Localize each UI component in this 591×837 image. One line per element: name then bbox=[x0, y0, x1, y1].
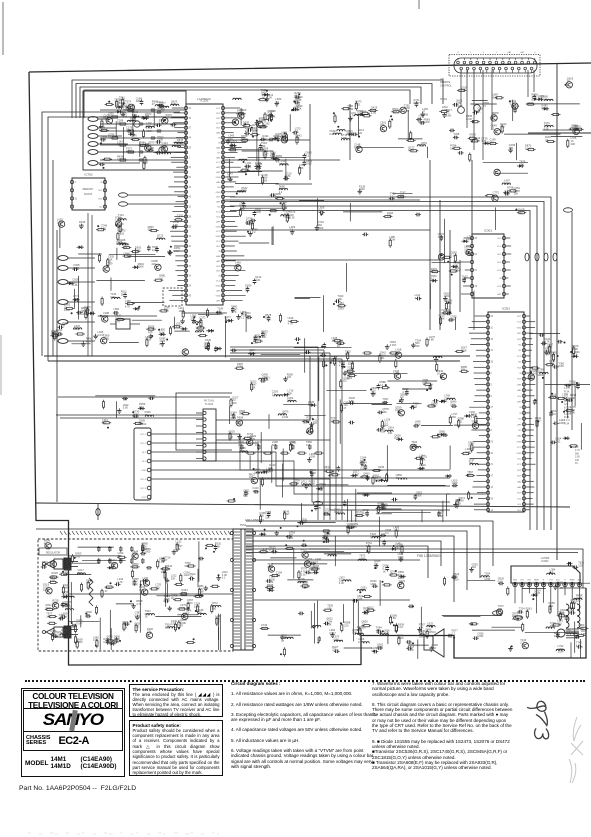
svg-text:33K: 33K bbox=[264, 378, 269, 382]
svg-text:33K: 33K bbox=[361, 588, 366, 592]
svg-text:100K: 100K bbox=[174, 249, 180, 253]
svg-text:100K: 100K bbox=[341, 136, 347, 140]
svg-text:0.047: 0.047 bbox=[51, 332, 58, 336]
svg-text:VCC: VCC bbox=[517, 464, 522, 466]
svg-text:0.01: 0.01 bbox=[239, 203, 245, 207]
svg-text:4.7K: 4.7K bbox=[86, 339, 92, 343]
svg-text:0.01: 0.01 bbox=[139, 588, 145, 592]
svg-text:100K: 100K bbox=[252, 489, 258, 493]
svg-text:1/2W: 1/2W bbox=[347, 107, 354, 111]
svg-text:0.1: 0.1 bbox=[140, 143, 144, 147]
svg-text:0.01: 0.01 bbox=[498, 579, 504, 583]
svg-text:560: 560 bbox=[102, 421, 107, 425]
svg-text:AFT: AFT bbox=[216, 260, 221, 263]
svg-text:100K: 100K bbox=[393, 528, 399, 532]
svg-text:0.1: 0.1 bbox=[306, 443, 310, 447]
svg-text:10K: 10K bbox=[550, 395, 555, 399]
svg-text:2.2: 2.2 bbox=[272, 392, 276, 396]
svg-text:100K: 100K bbox=[415, 422, 421, 426]
svg-text:100K: 100K bbox=[550, 624, 556, 628]
svg-text:220: 220 bbox=[472, 565, 477, 569]
svg-text:10K: 10K bbox=[421, 457, 426, 461]
svg-text:1000: 1000 bbox=[359, 187, 365, 191]
svg-text:33K: 33K bbox=[380, 123, 385, 127]
svg-text:NC: NC bbox=[518, 350, 522, 352]
svg-text:1000: 1000 bbox=[261, 626, 267, 630]
svg-text:220: 220 bbox=[155, 585, 160, 589]
svg-text:6.8K: 6.8K bbox=[301, 482, 307, 486]
svg-text:AFT: AFT bbox=[216, 289, 221, 292]
svg-text:3.3K: 3.3K bbox=[255, 278, 261, 282]
svg-text:120: 120 bbox=[557, 621, 562, 625]
svg-text:F88 1258/9582:: F88 1258/9582: bbox=[417, 554, 441, 558]
svg-text:33K: 33K bbox=[284, 215, 289, 219]
svg-text:560: 560 bbox=[121, 110, 126, 114]
svg-text:HEAT: HEAT bbox=[534, 579, 540, 582]
svg-text:560: 560 bbox=[164, 308, 169, 312]
svg-text:2.2: 2.2 bbox=[390, 194, 394, 198]
svg-text:0.1: 0.1 bbox=[500, 127, 504, 131]
svg-text:0.01: 0.01 bbox=[556, 439, 562, 443]
svg-text:1/2W: 1/2W bbox=[398, 636, 405, 640]
svg-text:1000: 1000 bbox=[187, 601, 193, 605]
svg-text:4.7K: 4.7K bbox=[404, 109, 410, 113]
svg-text:1K: 1K bbox=[437, 372, 440, 376]
svg-text:0.01: 0.01 bbox=[74, 327, 80, 331]
svg-text:1/2W: 1/2W bbox=[557, 586, 564, 590]
svg-text:33K: 33K bbox=[571, 142, 576, 146]
svg-text:2.2: 2.2 bbox=[513, 107, 517, 111]
svg-text:1K: 1K bbox=[121, 292, 124, 296]
svg-text:220: 220 bbox=[576, 598, 581, 602]
svg-text:1K: 1K bbox=[421, 144, 424, 148]
svg-text:6.8K: 6.8K bbox=[493, 95, 499, 99]
svg-text:560: 560 bbox=[431, 404, 436, 408]
svg-text:VCC: VCC bbox=[216, 241, 221, 243]
svg-text:33K: 33K bbox=[299, 166, 304, 170]
svg-text:4.7K: 4.7K bbox=[371, 111, 377, 115]
svg-text:0.047: 0.047 bbox=[262, 152, 269, 156]
svg-text:B-G: B-G bbox=[578, 580, 582, 582]
svg-text:OUT: OUT bbox=[517, 379, 522, 381]
svg-text:VCC: VCC bbox=[497, 246, 502, 248]
svg-text:120: 120 bbox=[249, 475, 254, 479]
svg-text:120: 120 bbox=[531, 375, 536, 379]
svg-text:0.047: 0.047 bbox=[324, 468, 331, 472]
svg-text:OUT: OUT bbox=[216, 266, 221, 268]
svg-text:2.2: 2.2 bbox=[319, 209, 323, 213]
svg-text:3.3K: 3.3K bbox=[339, 581, 345, 585]
svg-text:GND: GND bbox=[216, 226, 221, 228]
svg-text:33K: 33K bbox=[288, 391, 293, 395]
svg-text:33K: 33K bbox=[541, 106, 546, 110]
svg-text:33K: 33K bbox=[380, 356, 385, 360]
svg-text:220: 220 bbox=[253, 341, 258, 345]
svg-text:0.1: 0.1 bbox=[295, 129, 299, 133]
svg-text:S24C04: S24C04 bbox=[84, 194, 93, 196]
svg-text:1000: 1000 bbox=[145, 550, 151, 554]
svg-text:0.047: 0.047 bbox=[162, 144, 169, 148]
svg-text:220: 220 bbox=[147, 630, 152, 634]
svg-text:6.8K: 6.8K bbox=[429, 338, 435, 342]
svg-text:IC301: IC301 bbox=[484, 229, 492, 233]
svg-text:2.2: 2.2 bbox=[289, 228, 293, 232]
svg-text:120: 120 bbox=[327, 607, 332, 611]
svg-text:3.3K: 3.3K bbox=[262, 137, 268, 141]
svg-text:100K: 100K bbox=[416, 494, 422, 498]
svg-text:IC702: IC702 bbox=[84, 173, 92, 177]
svg-text:3.3K: 3.3K bbox=[570, 411, 576, 415]
svg-text:220: 220 bbox=[413, 404, 418, 408]
svg-text:4.7K: 4.7K bbox=[61, 631, 67, 635]
svg-text:6.8K: 6.8K bbox=[357, 597, 363, 601]
svg-text:10K: 10K bbox=[507, 188, 512, 192]
svg-text:0.1: 0.1 bbox=[384, 423, 388, 427]
svg-text:6.8K: 6.8K bbox=[101, 226, 107, 230]
svg-text:120: 120 bbox=[400, 193, 405, 197]
svg-text:0.01: 0.01 bbox=[301, 572, 307, 576]
svg-text:0.1: 0.1 bbox=[276, 100, 280, 104]
svg-text:220: 220 bbox=[317, 506, 322, 510]
svg-text:0.01: 0.01 bbox=[371, 391, 377, 395]
svg-text:2.2: 2.2 bbox=[238, 443, 242, 447]
svg-text:OUT: OUT bbox=[98, 198, 103, 200]
svg-text:1/2W: 1/2W bbox=[184, 573, 191, 577]
svg-text:2.2: 2.2 bbox=[245, 287, 249, 291]
svg-text:6.8K: 6.8K bbox=[250, 385, 256, 389]
svg-text:33K: 33K bbox=[259, 120, 264, 124]
svg-text:AFT: AFT bbox=[216, 220, 221, 223]
svg-text:1/2W: 1/2W bbox=[298, 580, 305, 584]
svg-text:AFT: AFT bbox=[517, 423, 522, 426]
svg-text:3.3K: 3.3K bbox=[289, 216, 295, 220]
svg-text:NC: NC bbox=[518, 345, 522, 347]
svg-text:220: 220 bbox=[395, 545, 400, 549]
svg-text:1K: 1K bbox=[567, 79, 570, 83]
svg-text:100K: 100K bbox=[45, 606, 51, 610]
svg-text:1000: 1000 bbox=[177, 141, 183, 145]
svg-text:6.8K: 6.8K bbox=[392, 110, 398, 114]
svg-text:1000: 1000 bbox=[578, 626, 584, 630]
svg-text:3.3K: 3.3K bbox=[205, 344, 211, 348]
svg-text:6.8K: 6.8K bbox=[357, 628, 363, 632]
svg-text:10K: 10K bbox=[46, 615, 51, 619]
svg-text:0.01: 0.01 bbox=[450, 403, 456, 407]
svg-text:0.047: 0.047 bbox=[353, 472, 360, 476]
svg-text:560: 560 bbox=[139, 421, 144, 425]
svg-text:NC: NC bbox=[518, 362, 522, 364]
svg-text:4.7K: 4.7K bbox=[549, 362, 555, 366]
svg-text:560: 560 bbox=[243, 494, 248, 498]
svg-text:PA TUNL: PA TUNL bbox=[204, 399, 215, 403]
svg-text:120: 120 bbox=[120, 231, 125, 235]
svg-text:560: 560 bbox=[103, 116, 108, 120]
svg-text:10K: 10K bbox=[227, 177, 232, 181]
svg-text:0.1: 0.1 bbox=[374, 562, 378, 566]
svg-text:33K: 33K bbox=[373, 476, 378, 480]
svg-text:AFT: AFT bbox=[216, 201, 221, 204]
svg-text:AFT: AFT bbox=[216, 171, 221, 174]
svg-text:120: 120 bbox=[111, 564, 116, 568]
svg-text:OUT: OUT bbox=[517, 316, 522, 318]
svg-text:AFT: AFT bbox=[216, 299, 221, 302]
svg-text:1000: 1000 bbox=[131, 136, 137, 140]
svg-text:10K: 10K bbox=[354, 145, 359, 149]
svg-text:220: 220 bbox=[332, 648, 337, 652]
svg-text:AFT: AFT bbox=[517, 332, 522, 335]
svg-text:10K: 10K bbox=[450, 147, 455, 151]
svg-text:OUT-1: OUT-1 bbox=[140, 434, 147, 436]
svg-text:3.3K: 3.3K bbox=[93, 638, 99, 642]
svg-text:4.7K: 4.7K bbox=[294, 108, 300, 112]
svg-text:0.01: 0.01 bbox=[348, 362, 354, 366]
svg-text:1K: 1K bbox=[549, 607, 552, 611]
svg-text:NC: NC bbox=[518, 419, 522, 421]
svg-text:OUT: OUT bbox=[216, 128, 221, 130]
svg-text:LA78##: LA78## bbox=[541, 557, 550, 560]
svg-text:1000: 1000 bbox=[534, 591, 540, 595]
svg-text:OUT: OUT bbox=[216, 246, 221, 248]
svg-text:0.047: 0.047 bbox=[76, 621, 83, 625]
svg-text:4.7K: 4.7K bbox=[363, 511, 369, 515]
svg-text:560: 560 bbox=[518, 211, 523, 215]
svg-text:4.7K: 4.7K bbox=[544, 340, 550, 344]
svg-text:0.047: 0.047 bbox=[356, 513, 363, 517]
svg-text:1/2W: 1/2W bbox=[237, 111, 244, 115]
svg-text:0.01: 0.01 bbox=[110, 295, 116, 299]
svg-text:4.7K: 4.7K bbox=[125, 304, 131, 308]
svg-text:4.7K: 4.7K bbox=[470, 136, 476, 140]
svg-text:33K: 33K bbox=[295, 137, 300, 141]
svg-text:0.1: 0.1 bbox=[241, 316, 245, 320]
svg-text:1K: 1K bbox=[477, 109, 480, 113]
svg-text:100K: 100K bbox=[309, 455, 315, 459]
svg-text:2.2: 2.2 bbox=[65, 607, 69, 611]
svg-text:VCC: VCC bbox=[216, 123, 221, 125]
svg-text:0.047: 0.047 bbox=[283, 512, 290, 516]
svg-text:0.01: 0.01 bbox=[366, 544, 372, 548]
svg-text:220: 220 bbox=[344, 624, 349, 628]
svg-text:33K: 33K bbox=[119, 98, 124, 102]
svg-text:1/2W: 1/2W bbox=[164, 597, 171, 601]
svg-text:560: 560 bbox=[148, 228, 153, 232]
svg-text:6.8K: 6.8K bbox=[391, 616, 397, 620]
svg-text:1K: 1K bbox=[108, 135, 111, 139]
svg-text:1/2W: 1/2W bbox=[282, 415, 289, 419]
svg-text:1000: 1000 bbox=[132, 565, 138, 569]
svg-text:560: 560 bbox=[52, 602, 57, 606]
svg-text:120: 120 bbox=[287, 399, 292, 403]
svg-text:NC: NC bbox=[518, 430, 522, 432]
svg-text:1000: 1000 bbox=[370, 582, 376, 586]
svg-text:1000: 1000 bbox=[431, 270, 437, 274]
svg-text:100K: 100K bbox=[461, 349, 467, 353]
svg-text:OUT: OUT bbox=[497, 262, 502, 264]
svg-text:560: 560 bbox=[272, 443, 277, 447]
svg-text:10K: 10K bbox=[514, 192, 519, 196]
svg-text:2.2: 2.2 bbox=[159, 276, 163, 280]
svg-text:AFT: AFT bbox=[216, 166, 221, 169]
svg-text:0.1: 0.1 bbox=[249, 351, 253, 355]
svg-text:10K: 10K bbox=[554, 634, 559, 638]
svg-text:1000: 1000 bbox=[157, 138, 163, 142]
svg-text:1K: 1K bbox=[396, 476, 399, 480]
svg-text:6.8K: 6.8K bbox=[333, 638, 339, 642]
svg-text:0.047: 0.047 bbox=[62, 593, 69, 597]
svg-text:1000: 1000 bbox=[57, 220, 63, 224]
svg-text:1000: 1000 bbox=[166, 116, 172, 120]
svg-text:10K: 10K bbox=[117, 142, 122, 146]
svg-text:4.7K: 4.7K bbox=[117, 580, 123, 584]
svg-text:1/2W: 1/2W bbox=[55, 633, 62, 637]
svg-text:10K: 10K bbox=[265, 516, 270, 520]
svg-text:1/2W: 1/2W bbox=[294, 96, 301, 100]
svg-text:0.1: 0.1 bbox=[222, 576, 226, 580]
svg-text:4.7K: 4.7K bbox=[469, 413, 475, 417]
svg-text:1/2W: 1/2W bbox=[198, 590, 205, 594]
svg-text:100K: 100K bbox=[73, 266, 79, 270]
svg-text:1000: 1000 bbox=[133, 415, 139, 419]
svg-text:NC: NC bbox=[217, 187, 221, 189]
svg-text:NC: NC bbox=[99, 207, 103, 209]
svg-text:1000: 1000 bbox=[438, 235, 444, 239]
svg-text:4.7K: 4.7K bbox=[235, 263, 241, 267]
svg-text:1000: 1000 bbox=[455, 502, 461, 506]
svg-text:0.01: 0.01 bbox=[185, 564, 191, 568]
svg-text:OUT-2: OUT-2 bbox=[140, 443, 147, 445]
svg-text:LA76810A: LA76810A bbox=[197, 97, 211, 101]
svg-text:220: 220 bbox=[152, 262, 157, 266]
svg-text:VCC: VCC bbox=[517, 447, 522, 449]
svg-text:220: 220 bbox=[266, 469, 271, 473]
svg-text:0.01: 0.01 bbox=[75, 554, 81, 558]
svg-text:6.8K: 6.8K bbox=[559, 364, 565, 368]
svg-text:1000: 1000 bbox=[562, 395, 568, 399]
svg-text:TU101: TU101 bbox=[205, 402, 214, 406]
svg-text:3.3K: 3.3K bbox=[171, 102, 177, 106]
svg-text:120: 120 bbox=[301, 550, 306, 554]
svg-text:3.3K: 3.3K bbox=[461, 88, 467, 92]
svg-text:1000: 1000 bbox=[418, 120, 424, 124]
svg-text:VCC: VCC bbox=[142, 497, 147, 499]
svg-text:TP602: TP602 bbox=[440, 98, 448, 101]
svg-text:VCC: VCC bbox=[216, 162, 221, 164]
svg-text:560: 560 bbox=[42, 563, 47, 567]
svg-text:1000: 1000 bbox=[135, 249, 141, 253]
svg-text:0.1: 0.1 bbox=[425, 630, 429, 634]
svg-text:1000: 1000 bbox=[453, 577, 459, 581]
svg-text:120: 120 bbox=[146, 124, 151, 128]
svg-text:1/2W: 1/2W bbox=[43, 588, 50, 592]
svg-text:10K: 10K bbox=[237, 421, 242, 425]
svg-text:1K: 1K bbox=[262, 96, 265, 100]
svg-text:0.047: 0.047 bbox=[455, 269, 462, 273]
svg-text:HEAT: HEAT bbox=[570, 579, 576, 582]
svg-text:10K: 10K bbox=[148, 330, 153, 334]
svg-text:6.8K: 6.8K bbox=[446, 114, 452, 118]
svg-text:6.8K: 6.8K bbox=[247, 438, 253, 442]
svg-text:0.1: 0.1 bbox=[132, 555, 136, 559]
svg-text:CONTROL: CONTROL bbox=[440, 84, 452, 87]
svg-text:1000: 1000 bbox=[338, 306, 344, 310]
svg-text:10K: 10K bbox=[123, 245, 128, 249]
svg-text:OUT: OUT bbox=[216, 197, 221, 199]
svg-text:GND: GND bbox=[216, 236, 221, 238]
svg-text:2.2: 2.2 bbox=[520, 641, 524, 645]
svg-text:10K: 10K bbox=[279, 162, 284, 166]
svg-text:1/2W: 1/2W bbox=[389, 238, 396, 242]
svg-text:GND: GND bbox=[216, 295, 221, 297]
svg-text:0.1: 0.1 bbox=[269, 548, 273, 552]
svg-text:AFT: AFT bbox=[517, 383, 522, 386]
svg-text:OUT: OUT bbox=[497, 254, 502, 256]
svg-text:AFT: AFT bbox=[517, 401, 522, 404]
svg-text:2.2: 2.2 bbox=[306, 154, 310, 158]
svg-text:220: 220 bbox=[313, 421, 318, 425]
svg-text:0.01: 0.01 bbox=[347, 376, 353, 380]
svg-text:1K: 1K bbox=[145, 615, 148, 619]
svg-text:560: 560 bbox=[452, 415, 457, 419]
svg-text:6.8K: 6.8K bbox=[165, 625, 171, 629]
svg-text:1000: 1000 bbox=[230, 147, 236, 151]
svg-text:0.047: 0.047 bbox=[334, 510, 341, 514]
svg-text:VCC: VCC bbox=[216, 108, 221, 110]
svg-text:560: 560 bbox=[432, 646, 437, 650]
svg-text:560: 560 bbox=[382, 410, 387, 414]
svg-text:1000: 1000 bbox=[444, 294, 450, 298]
svg-text:0.047: 0.047 bbox=[329, 132, 336, 136]
svg-text:3.3K: 3.3K bbox=[452, 484, 458, 488]
svg-text:33K: 33K bbox=[262, 335, 267, 339]
svg-text:1000: 1000 bbox=[359, 556, 365, 560]
svg-text:120: 120 bbox=[173, 226, 178, 230]
svg-text:100K: 100K bbox=[148, 146, 154, 150]
svg-text:3.3K: 3.3K bbox=[142, 579, 148, 583]
svg-text:0.01: 0.01 bbox=[249, 223, 255, 227]
svg-text:33K: 33K bbox=[388, 431, 393, 435]
svg-text:3.3K: 3.3K bbox=[265, 316, 271, 320]
svg-text:GND: GND bbox=[517, 327, 522, 329]
svg-text:0.1: 0.1 bbox=[159, 342, 163, 346]
svg-text:10K: 10K bbox=[259, 514, 264, 518]
svg-text:1K: 1K bbox=[324, 535, 327, 539]
svg-text:1K: 1K bbox=[117, 121, 120, 125]
svg-text:OUT: OUT bbox=[216, 271, 221, 273]
svg-text:2.2: 2.2 bbox=[452, 631, 456, 635]
svg-text:IC351: IC351 bbox=[502, 307, 510, 311]
svg-text:OUT: OUT bbox=[517, 510, 522, 512]
svg-text:GND: GND bbox=[216, 286, 221, 288]
svg-text:33K: 33K bbox=[240, 449, 245, 453]
svg-text:560: 560 bbox=[276, 573, 281, 577]
svg-text:2.2: 2.2 bbox=[145, 115, 149, 119]
svg-text:4.7K: 4.7K bbox=[181, 591, 187, 595]
svg-text:4.7K: 4.7K bbox=[288, 322, 294, 326]
svg-text:120: 120 bbox=[79, 223, 84, 227]
svg-text:VCC: VCC bbox=[517, 356, 522, 358]
svg-text:VCC: VCC bbox=[216, 231, 221, 233]
svg-text:4.7K: 4.7K bbox=[581, 632, 587, 636]
svg-text:220: 220 bbox=[171, 622, 176, 626]
svg-text:3.3K: 3.3K bbox=[72, 283, 78, 287]
svg-text:1K: 1K bbox=[378, 468, 381, 472]
svg-text:0.047: 0.047 bbox=[456, 104, 463, 108]
svg-text:10K: 10K bbox=[419, 634, 424, 638]
svg-text:0.01: 0.01 bbox=[355, 103, 361, 107]
svg-text:1000: 1000 bbox=[103, 336, 109, 340]
svg-text:1/2W: 1/2W bbox=[152, 248, 159, 252]
svg-text:3.3K: 3.3K bbox=[450, 317, 456, 321]
